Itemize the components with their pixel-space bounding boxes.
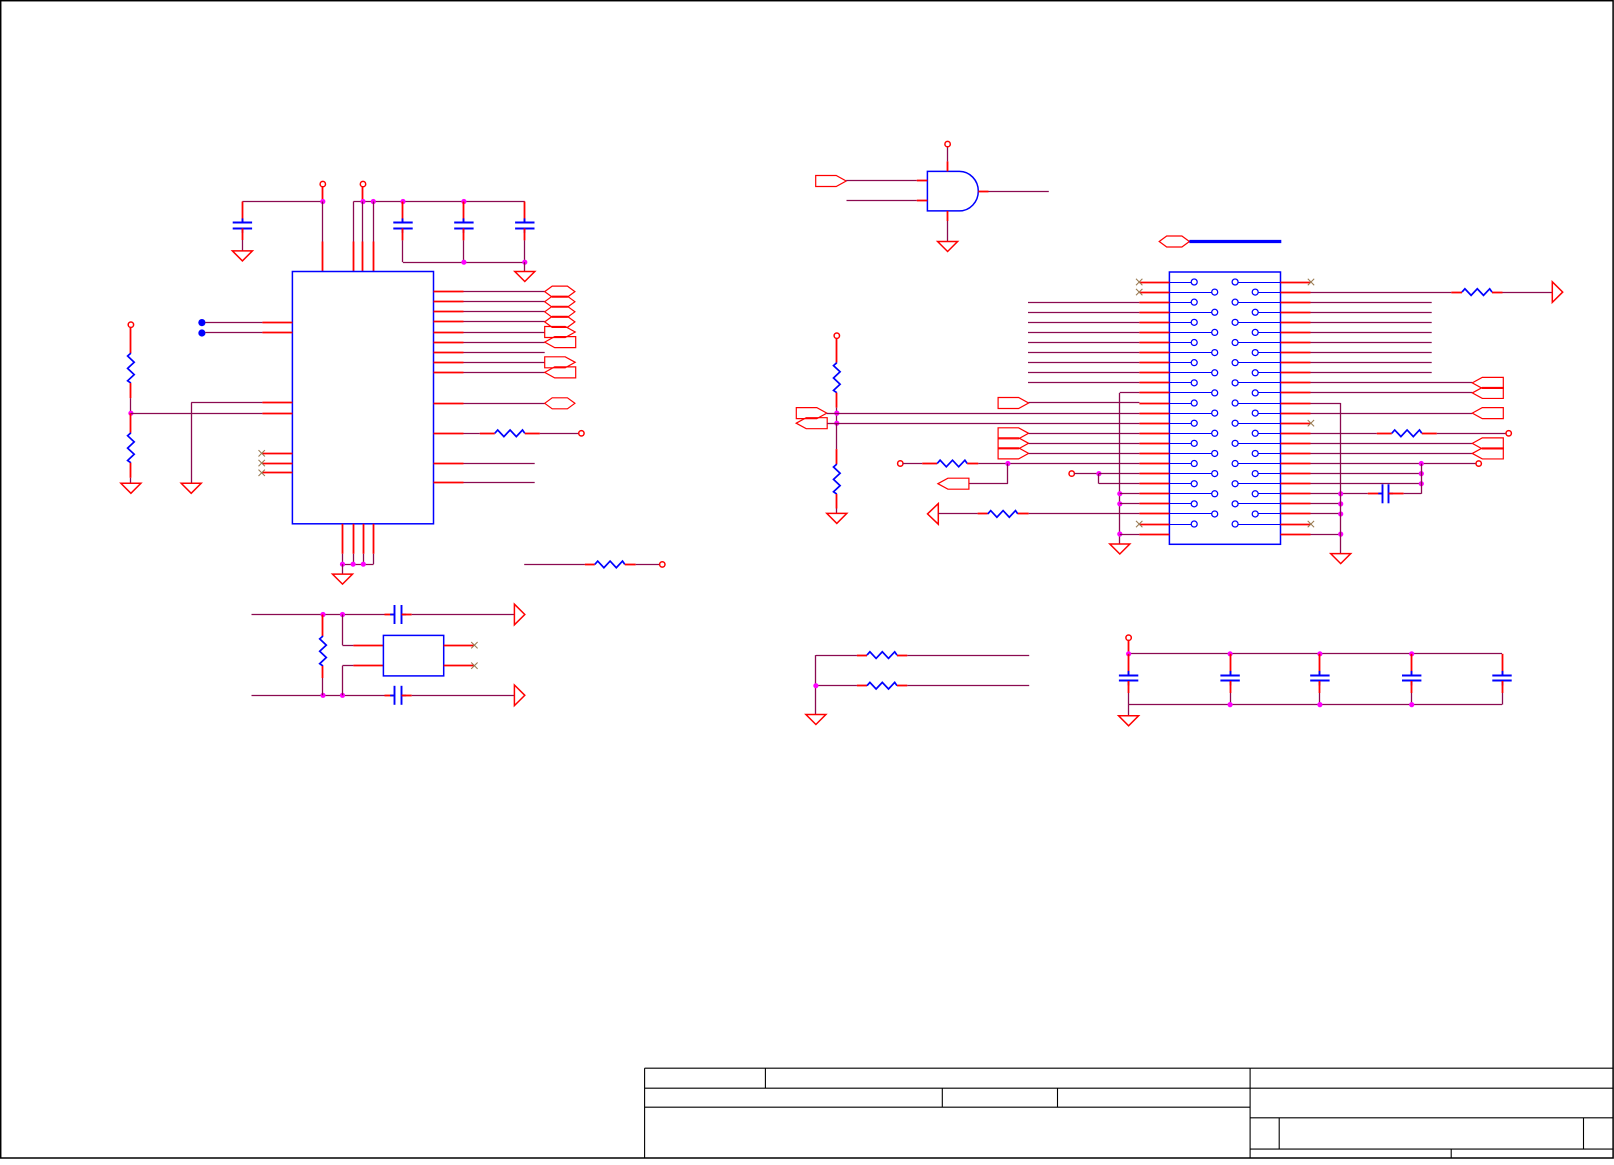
pin stub right — [1281, 443, 1311, 445]
wire — [816, 655, 857, 657]
wire — [1028, 342, 1139, 344]
port flag — [1472, 408, 1503, 419]
wire — [1311, 503, 1341, 505]
wire — [1028, 362, 1139, 364]
junction — [351, 562, 356, 567]
pin stub left — [1139, 292, 1169, 294]
connector pin row 18 — [1169, 453, 1211, 455]
pin stub right — [1281, 483, 1311, 485]
junction — [1419, 481, 1424, 486]
wire — [1311, 453, 1473, 455]
pin VCC1 — [322, 202, 324, 242]
wire — [1404, 493, 1422, 495]
connector pin row 24 — [1169, 513, 1211, 515]
pin stub left — [1139, 302, 1169, 304]
wire — [1028, 322, 1139, 324]
port flag — [796, 418, 827, 429]
junction — [1317, 702, 1322, 707]
pin stub left — [1139, 534, 1169, 536]
pin D3 — [434, 321, 464, 323]
no-connect — [1308, 420, 1314, 426]
resistor R5 — [322, 615, 324, 637]
pin stub left — [1139, 342, 1169, 344]
wire — [1311, 473, 1422, 475]
port flag — [545, 316, 575, 327]
connector pin row 13 — [1169, 403, 1191, 405]
pin stub left — [1139, 513, 1169, 515]
port flag — [545, 306, 575, 317]
wire — [1028, 332, 1139, 334]
connector pin row 6 — [1169, 332, 1211, 334]
capacitor C4 — [524, 202, 526, 223]
connector pin row 23 — [1169, 503, 1191, 505]
wire — [1311, 392, 1473, 394]
connector pin row 19 — [1169, 463, 1191, 465]
pin stub right — [1281, 493, 1311, 495]
port flag — [1472, 448, 1503, 459]
pin stub left — [1139, 382, 1169, 384]
pin — [434, 482, 464, 484]
wire — [342, 615, 344, 646]
pin — [434, 463, 464, 465]
wire — [242, 201, 322, 203]
wire — [1128, 705, 1130, 716]
connector pin row 10 — [1169, 372, 1211, 374]
wire — [1029, 443, 1140, 445]
pin stub left — [1139, 493, 1169, 495]
pin stub left — [1139, 413, 1169, 415]
pin stub right — [1281, 503, 1311, 505]
junction — [1419, 471, 1424, 476]
pin stub left — [1139, 463, 1169, 465]
resistor R8 — [922, 463, 937, 465]
pin — [353, 665, 383, 667]
resistor R11 — [1377, 433, 1392, 435]
pin stub left — [1139, 473, 1169, 475]
no-connect pin — [262, 463, 292, 465]
wire — [978, 463, 1139, 465]
junction — [1338, 491, 1343, 496]
resistor R7 — [836, 423, 838, 449]
resistor R12 — [857, 655, 867, 657]
pin stub right — [1281, 312, 1311, 314]
power port P1 — [320, 181, 325, 186]
port flag — [545, 286, 575, 297]
wire — [1120, 503, 1140, 505]
IC U1 — [292, 272, 433, 524]
junction — [1409, 651, 1414, 656]
wire — [1029, 513, 1140, 515]
resistor R10 — [1451, 292, 1462, 294]
capacitor C10 — [1319, 654, 1321, 676]
resistor R13 — [857, 685, 867, 687]
pin stub right — [1281, 513, 1311, 515]
capacitor C9 — [1230, 654, 1232, 676]
pin stub right — [1281, 403, 1311, 405]
crystal Y1 — [383, 635, 443, 676]
ground — [232, 251, 252, 261]
wire — [131, 413, 263, 415]
pin stub left — [1139, 403, 1169, 405]
ground — [1119, 716, 1139, 726]
wire — [1437, 433, 1506, 435]
pin stub right — [1281, 473, 1311, 475]
pin stub left — [1139, 312, 1169, 314]
wire — [1029, 402, 1140, 404]
connector pin row 17 — [1169, 443, 1191, 445]
pin stub left — [1139, 443, 1169, 445]
wire — [1311, 493, 1368, 495]
pin VCC2 — [353, 202, 355, 242]
wire — [938, 513, 977, 515]
junction — [361, 562, 366, 567]
gate input pin 2 — [917, 200, 928, 202]
wire — [1028, 382, 1139, 384]
wire — [1311, 483, 1422, 485]
port arrow — [928, 504, 939, 525]
wire — [524, 564, 585, 566]
no-connect — [1308, 521, 1314, 527]
connector pin row 22 — [1169, 493, 1211, 495]
wire — [1311, 433, 1377, 435]
wire — [1120, 534, 1140, 536]
pin stub left — [1139, 282, 1169, 284]
capacitor C2 — [402, 202, 404, 223]
junction — [1117, 531, 1122, 536]
power port P2 — [360, 181, 365, 186]
port flag — [998, 398, 1029, 409]
wire — [1421, 464, 1423, 494]
wire — [837, 413, 1140, 415]
pin D7 — [434, 362, 464, 364]
pin stub left — [1139, 372, 1169, 374]
connector pin row 1 — [1169, 282, 1191, 284]
wire — [836, 413, 838, 423]
pin stub left — [1139, 524, 1169, 526]
junction — [1228, 702, 1233, 707]
no-connect — [1136, 289, 1142, 295]
port flag — [545, 357, 576, 368]
pin — [353, 645, 383, 647]
wire — [354, 201, 525, 203]
pin stub left — [1139, 503, 1169, 505]
no-connect pin — [262, 453, 292, 455]
pin — [434, 403, 464, 405]
pin stub right — [1281, 332, 1311, 334]
wire — [540, 433, 579, 435]
ground — [1110, 544, 1130, 554]
pin stub right — [1281, 362, 1311, 364]
resistor R9 — [978, 513, 988, 515]
pin stub left — [1139, 352, 1169, 354]
no-connect pin — [262, 472, 292, 474]
power port P3 — [128, 322, 133, 327]
pin stub right — [1281, 392, 1311, 394]
wire — [827, 413, 837, 415]
connector pin row 15 — [1169, 423, 1191, 425]
resistor R3 — [480, 433, 495, 435]
wire — [343, 564, 374, 566]
wire — [827, 423, 837, 425]
wire — [1311, 413, 1473, 415]
port flag — [796, 408, 827, 419]
port flag — [998, 438, 1029, 449]
pin — [434, 433, 464, 435]
pin stub right — [1281, 453, 1311, 455]
port flag — [998, 448, 1029, 459]
pin GND — [342, 524, 344, 554]
wire — [846, 180, 917, 182]
wire — [1028, 352, 1139, 354]
junction — [1338, 532, 1343, 537]
capacitor C11 — [1411, 654, 1413, 676]
junction — [340, 612, 345, 617]
connector pin row 5 — [1169, 322, 1191, 324]
wire — [1028, 312, 1139, 314]
ground — [515, 272, 535, 282]
wire — [1311, 372, 1432, 374]
port arrow — [514, 604, 524, 625]
port flag — [545, 337, 576, 348]
pin — [262, 332, 292, 334]
port flag — [545, 367, 576, 378]
port arrow — [514, 685, 524, 706]
resistor R1 — [130, 327, 132, 353]
AND gate U2 — [927, 171, 978, 211]
power port P12 — [1126, 635, 1131, 640]
wire — [815, 655, 817, 714]
pin stub right — [1281, 524, 1311, 526]
wire — [524, 262, 526, 271]
wire — [1340, 403, 1342, 554]
pin D4 — [434, 332, 464, 334]
wire — [1029, 433, 1140, 435]
wire — [1311, 362, 1432, 364]
pin stub right — [1281, 382, 1311, 384]
wire — [907, 655, 1029, 657]
node stub A — [198, 319, 205, 326]
port arrow — [1552, 282, 1562, 303]
junction — [320, 199, 325, 204]
capacitor C8 — [1128, 654, 1130, 676]
ground — [121, 483, 141, 493]
connector pin row 8 — [1169, 352, 1211, 354]
port flag — [998, 428, 1029, 439]
wire — [1311, 292, 1452, 294]
wire — [1311, 513, 1341, 515]
pin stub right — [1281, 534, 1311, 536]
pin D0 — [434, 291, 464, 293]
capacitor C12 — [1502, 654, 1504, 676]
connector pin row 3 — [1169, 302, 1191, 304]
junction — [1409, 702, 1414, 707]
connector pin row 2 — [1169, 292, 1211, 294]
port flag — [938, 478, 969, 489]
pin GND — [373, 524, 375, 554]
wire — [1311, 342, 1432, 344]
port flag — [816, 176, 847, 187]
junction — [371, 199, 376, 204]
junction — [1005, 461, 1010, 466]
junction — [340, 693, 345, 698]
connector pin row 25 — [1169, 524, 1191, 526]
wire — [1311, 352, 1432, 354]
pin stub right — [1281, 342, 1311, 344]
port flag — [545, 296, 575, 307]
junction — [320, 612, 325, 617]
wire — [1503, 292, 1553, 294]
power port P4 — [579, 431, 584, 436]
pin stub left — [1139, 483, 1169, 485]
gate power pin — [947, 161, 949, 171]
pin stub right — [1281, 352, 1311, 354]
wire — [1007, 464, 1009, 484]
wire — [907, 685, 1029, 687]
wire — [1311, 534, 1341, 536]
wire — [847, 200, 917, 202]
pin D8 — [434, 372, 464, 374]
wire — [1311, 382, 1473, 384]
wire — [816, 685, 857, 687]
pin GND — [363, 524, 365, 554]
ground — [181, 483, 201, 493]
wire — [1129, 653, 1502, 655]
port flag — [545, 327, 576, 338]
junction — [1228, 651, 1233, 656]
capacitor C5 — [385, 614, 395, 616]
pin stub right — [1281, 463, 1311, 465]
wire — [1074, 473, 1099, 475]
wire — [1311, 322, 1432, 324]
connector pin row 7 — [1169, 342, 1191, 344]
pin stub right — [1281, 302, 1311, 304]
wire — [1028, 372, 1139, 374]
wire — [1311, 443, 1473, 445]
junction — [320, 693, 325, 698]
junction — [813, 683, 818, 688]
power port P7 — [834, 333, 839, 338]
ground — [1331, 554, 1351, 564]
wire — [1120, 392, 1140, 394]
pin — [262, 413, 292, 415]
bus wire — [1189, 240, 1281, 243]
capacitor C6 — [385, 695, 395, 697]
wire — [252, 695, 385, 697]
junction — [461, 199, 466, 204]
junction — [360, 199, 365, 204]
pin stub left — [1139, 433, 1169, 435]
no-connect pin — [444, 665, 474, 667]
wire — [403, 262, 525, 264]
pin stub left — [1139, 423, 1169, 425]
connector pin row 4 — [1169, 312, 1211, 314]
gate output pin — [978, 191, 988, 193]
junction — [1338, 511, 1343, 516]
pin stub right — [1281, 433, 1311, 435]
no-connect — [1136, 521, 1142, 527]
power port P10 — [1506, 431, 1511, 436]
pin D6 — [434, 352, 464, 354]
pin stub left — [1139, 392, 1169, 394]
power port P8 — [898, 461, 903, 466]
port flag — [1159, 236, 1189, 247]
wire — [1029, 453, 1140, 455]
pin stub right — [1281, 372, 1311, 374]
power port P5 — [660, 562, 665, 567]
no-connect pin — [444, 645, 474, 647]
junction — [461, 260, 466, 265]
junction — [1126, 651, 1131, 656]
port flag — [1472, 438, 1503, 449]
ground — [827, 513, 847, 523]
pin stub right — [1281, 423, 1311, 425]
wire — [1311, 302, 1432, 304]
pin — [262, 322, 292, 324]
gate input pin 1 — [917, 180, 928, 182]
ground — [938, 242, 958, 252]
junction — [1419, 461, 1424, 466]
pin GND — [353, 524, 355, 554]
junction — [522, 260, 527, 265]
wire — [1028, 302, 1139, 304]
power port P9 — [1069, 471, 1074, 476]
wire — [1129, 704, 1502, 706]
ground — [333, 574, 353, 584]
no-connect — [1136, 279, 1142, 285]
wire — [1119, 393, 1121, 544]
pin stub right — [1281, 282, 1311, 284]
pin D2 — [434, 311, 464, 313]
connector pin row 14 — [1169, 413, 1211, 415]
connector pin row 21 — [1169, 483, 1191, 485]
capacitor C7 — [1368, 493, 1383, 495]
pin VCC4 — [373, 202, 375, 242]
resistor R2 — [130, 413, 132, 433]
pin stub left — [1139, 362, 1169, 364]
pin D5 — [434, 342, 464, 344]
capacitor C1 — [242, 202, 244, 223]
ground — [806, 715, 826, 725]
junction — [1317, 651, 1322, 656]
junction — [834, 411, 839, 416]
wire — [1120, 493, 1140, 495]
pin D1 — [434, 301, 464, 303]
pin stub right — [1281, 292, 1311, 294]
junction — [128, 411, 133, 416]
wire — [412, 614, 515, 616]
pin stub right — [1281, 322, 1311, 324]
port flag — [1472, 387, 1503, 398]
wire — [1098, 474, 1100, 484]
connector pin row 20 — [1169, 473, 1211, 475]
pin stub right — [1281, 413, 1311, 415]
wire — [636, 564, 660, 566]
wire — [837, 423, 1140, 425]
pin VCC3 — [362, 202, 364, 242]
connector J1 — [1169, 272, 1280, 544]
connector pin row 9 — [1169, 362, 1191, 364]
wire — [342, 564, 344, 574]
wire — [412, 695, 515, 697]
gate ground pin — [947, 211, 949, 221]
junction — [1117, 491, 1122, 496]
power port P11 — [1476, 461, 1481, 466]
junction — [1096, 471, 1101, 476]
connector pin row 11 — [1169, 382, 1191, 384]
junction — [1338, 501, 1343, 506]
wire — [1311, 332, 1432, 334]
wire — [1311, 463, 1476, 465]
